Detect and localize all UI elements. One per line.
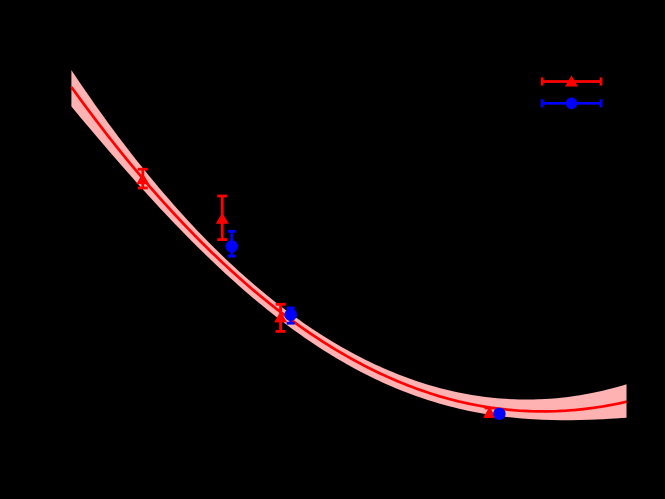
triangle marker T1 [136,173,149,184]
triangle marker T4 [483,407,496,418]
fit curve [71,87,626,411]
circle point C1 error bar [228,231,236,256]
legend blue entry [542,99,602,107]
triangle marker T3 [274,311,287,322]
circle marker C1 [226,240,238,252]
legend red entry [542,77,602,85]
circle point C2 error bar [287,308,295,323]
triangle marker T2 [216,213,229,224]
confidence band [71,70,626,420]
circle point C3 error bar [495,410,503,418]
triangle point T3 error bar [276,304,286,331]
circle marker C2 [285,309,297,321]
triangle point T2 error bar [217,196,227,240]
circle marker C3 [493,408,505,420]
triangle point T4 error bar [485,408,495,417]
triangle point T1 error bar [138,169,148,188]
